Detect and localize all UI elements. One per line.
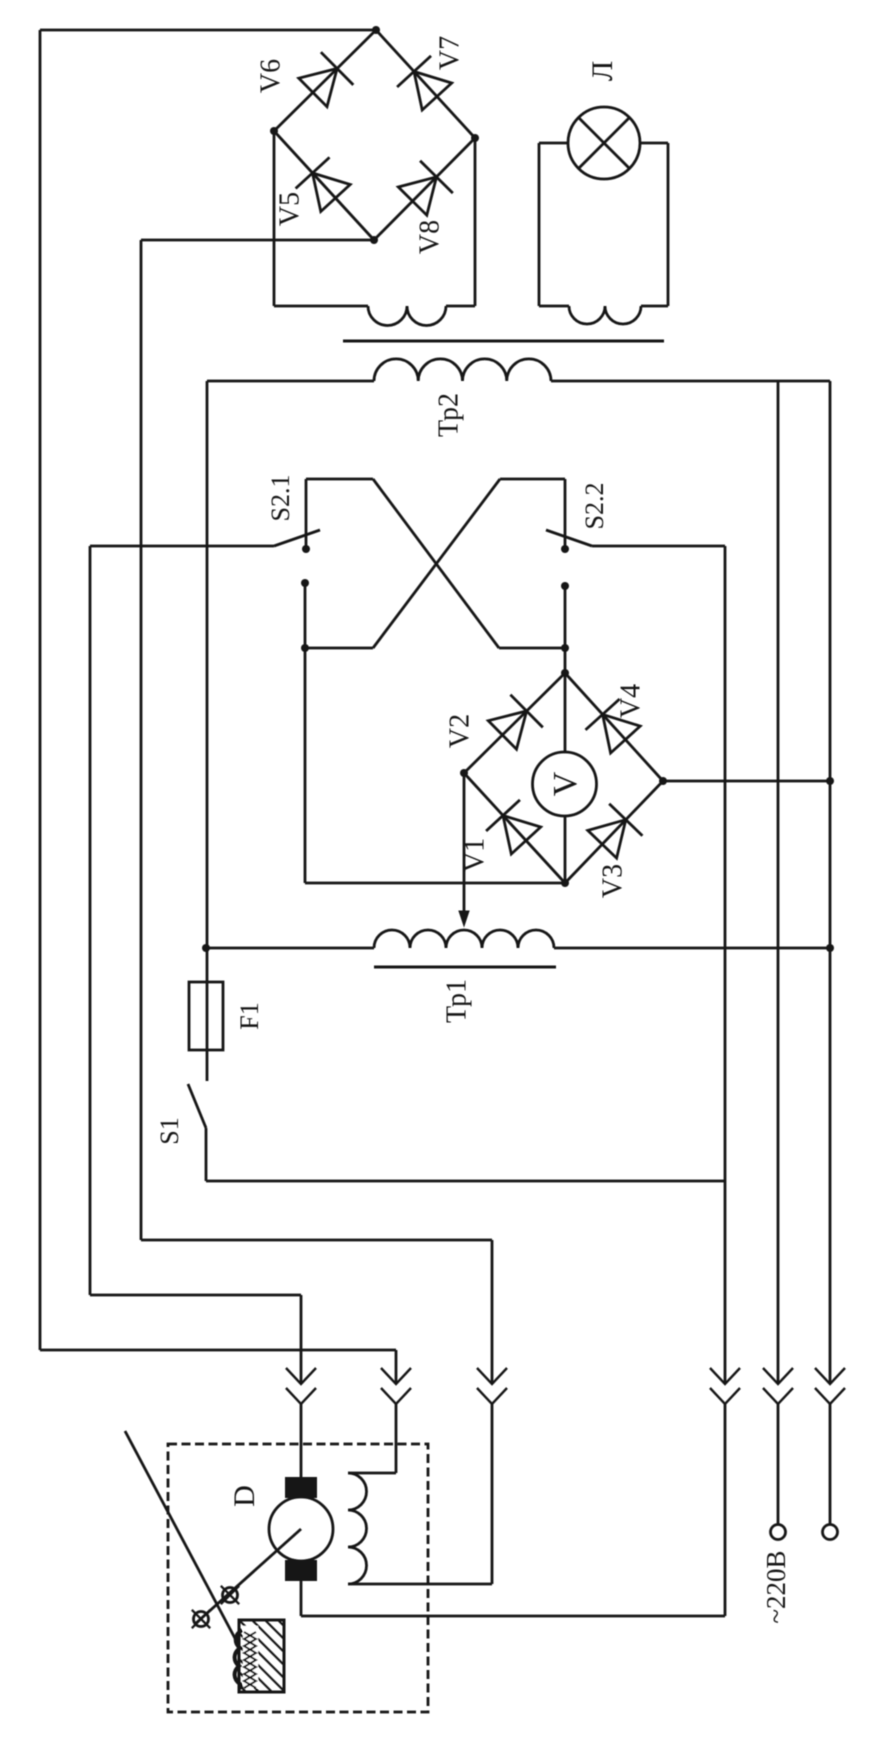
grinding wheel [239, 1620, 284, 1692]
diode V3 [588, 804, 643, 858]
shaft [195, 1529, 301, 1624]
enclosure [168, 1444, 428, 1712]
node [561, 545, 569, 553]
label Tp1 [442, 979, 473, 1023]
lamp loop wire [640, 143, 668, 306]
wire [500, 479, 565, 549]
switch S2.2 arm [546, 530, 592, 546]
wire [305, 882, 565, 885]
label V4 [616, 684, 647, 718]
label V8 [415, 220, 446, 254]
transformer Tp1 core [374, 966, 556, 969]
transformer Tp2 secondary winding 1 [274, 306, 475, 325]
svg-text:Тр1: Тр1 [442, 979, 473, 1023]
wire [348, 1583, 492, 1586]
connector arrows [477, 1368, 507, 1404]
wire [206, 1180, 725, 1183]
label S2.1 [266, 475, 295, 522]
node [471, 134, 479, 142]
label V7 [435, 36, 466, 70]
wire [565, 781, 663, 883]
terminal [771, 1525, 786, 1540]
switch S1 arm [188, 1084, 206, 1128]
label Tp2 [434, 393, 465, 437]
wire [499, 647, 565, 650]
wire [300, 1295, 303, 1477]
transformer Tp2 primary winding [207, 359, 830, 381]
wire [491, 1240, 494, 1584]
wire [565, 673, 663, 781]
wire [464, 673, 565, 773]
transformer Tp2 core [343, 340, 664, 343]
wire [205, 1128, 208, 1181]
label D [228, 1485, 261, 1507]
label V3 [598, 864, 629, 898]
label V1 [460, 838, 491, 872]
wire [40, 29, 376, 32]
node [561, 879, 569, 887]
connector arrows [381, 1368, 411, 1404]
wire [777, 381, 780, 1524]
voltmeter V [533, 673, 597, 883]
wire [206, 381, 209, 1081]
wire [395, 1350, 398, 1473]
label L [586, 61, 619, 81]
transformer Tp1 winding [206, 930, 830, 948]
wheel flange [235, 1630, 256, 1689]
connector arrows [286, 1368, 316, 1404]
svg-text:V: V [547, 771, 584, 796]
diode V7 [397, 56, 452, 110]
diode V5 [296, 157, 351, 211]
wire [305, 647, 373, 650]
node [270, 127, 278, 135]
lamp L [568, 107, 640, 179]
wire [663, 780, 830, 783]
node [659, 777, 667, 785]
support line [125, 1431, 238, 1644]
svg-text:Тр2: Тр2 [434, 393, 465, 437]
diode V6 [299, 52, 354, 106]
slider arrow [459, 773, 469, 926]
connector arrows [815, 1368, 845, 1404]
wire [89, 546, 92, 1295]
diode V1 [486, 800, 541, 854]
wire [274, 30, 376, 131]
wire [300, 1581, 303, 1616]
motor D armature [269, 1497, 333, 1561]
wire [592, 545, 725, 548]
node [372, 26, 380, 34]
node [826, 944, 834, 952]
switch S2.1 arm [274, 530, 320, 546]
label F1 [235, 1002, 264, 1029]
wire [40, 1349, 396, 1352]
svg-text:S2.1: S2.1 [266, 475, 295, 522]
svg-text:V7: V7 [435, 36, 466, 70]
lamp loop wire [539, 143, 568, 306]
label S1 [155, 1117, 184, 1144]
node [561, 582, 569, 590]
node [301, 579, 309, 587]
node [826, 777, 834, 785]
wire [274, 131, 374, 240]
svg-text:V2: V2 [445, 714, 476, 748]
svg-text:Л: Л [586, 61, 619, 81]
bearing [192, 1610, 210, 1628]
fuse F1 [189, 982, 223, 1050]
label 220V [761, 1550, 791, 1623]
wire [724, 546, 727, 1616]
wire [373, 479, 499, 648]
node [301, 644, 309, 652]
label V5 [275, 192, 306, 226]
wire [140, 240, 143, 1240]
svg-text:S1: S1 [155, 1117, 184, 1144]
wire [141, 1239, 492, 1242]
wire [301, 1615, 725, 1618]
node [302, 545, 310, 553]
secondary loop wire [273, 131, 276, 306]
svg-text:~220В: ~220В [761, 1550, 791, 1623]
secondary loop wire [474, 138, 477, 306]
svg-text:D: D [228, 1485, 261, 1507]
wire [829, 381, 832, 1524]
node [370, 236, 378, 244]
diode V2 [488, 695, 543, 750]
node [460, 769, 468, 777]
motor field winding [348, 1473, 367, 1584]
wire [304, 583, 307, 883]
node [561, 644, 569, 652]
svg-text:F1: F1 [235, 1002, 264, 1029]
node [561, 669, 569, 677]
label V [547, 771, 584, 796]
wire [348, 1472, 396, 1475]
diode V8 [398, 161, 453, 216]
wire [464, 773, 565, 883]
brush [285, 1477, 317, 1498]
wire [141, 239, 374, 242]
brush [285, 1560, 317, 1581]
svg-text:V6: V6 [256, 59, 287, 93]
svg-text:S2.2: S2.2 [580, 483, 609, 530]
wire [90, 545, 274, 548]
label S2.2 [580, 483, 609, 530]
wire [90, 1294, 301, 1297]
terminal [823, 1525, 838, 1540]
node [202, 944, 210, 952]
svg-text:V8: V8 [415, 220, 446, 254]
wire [39, 30, 42, 1350]
wire [374, 138, 475, 240]
bearing [221, 1586, 239, 1604]
wire [564, 586, 567, 673]
svg-text:V4: V4 [616, 684, 647, 718]
transformer Tp2 secondary winding 2 [539, 306, 668, 324]
wire [376, 30, 475, 138]
svg-text:V3: V3 [598, 864, 629, 898]
connector arrows [710, 1368, 740, 1404]
svg-text:V5: V5 [275, 192, 306, 226]
wire [306, 479, 373, 549]
label V6 [256, 59, 287, 93]
label V2 [445, 714, 476, 748]
wire [373, 479, 500, 648]
connector arrows [763, 1368, 793, 1404]
diode V4 [586, 699, 641, 753]
